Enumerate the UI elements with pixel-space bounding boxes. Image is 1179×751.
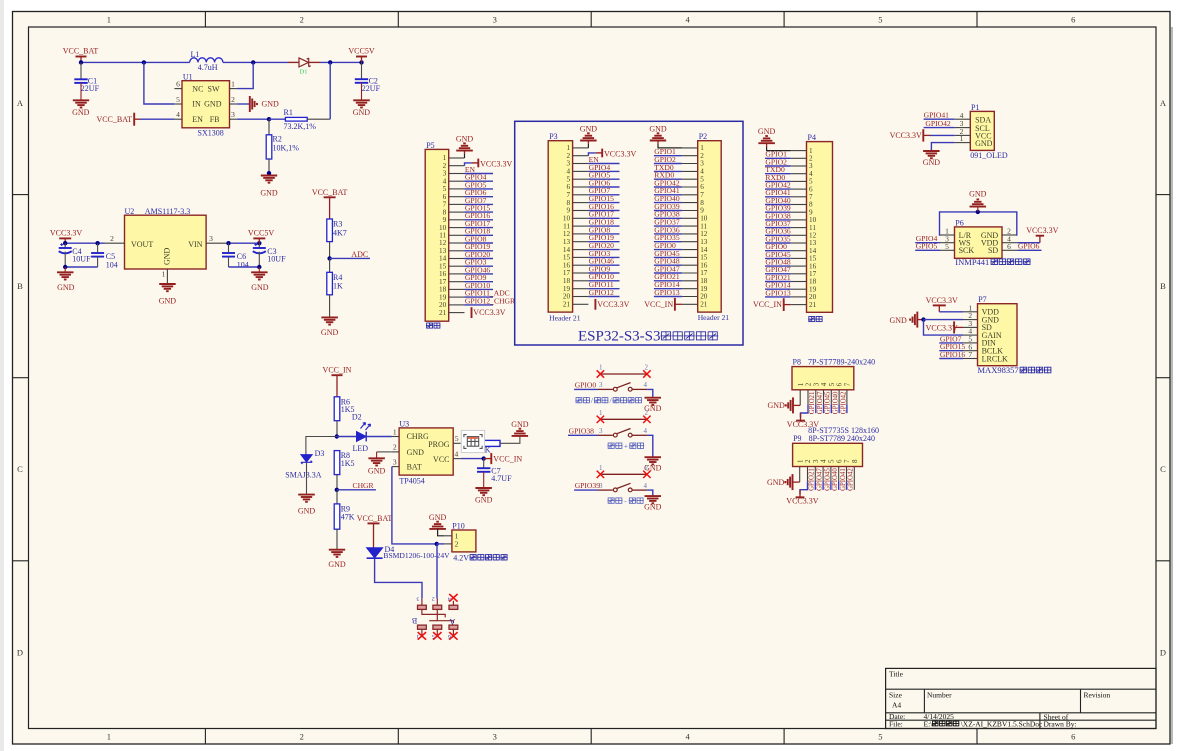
- svg-text:3: 3: [700, 160, 704, 168]
- svg-text:3: 3: [599, 482, 603, 490]
- svg-text:1: 1: [796, 459, 804, 463]
- wire P7 VDD: [939, 311, 963, 313]
- svg-text:BSMD1206-100-24V: BSMD1206-100-24V: [383, 551, 450, 560]
- svg-text:1: 1: [599, 364, 603, 372]
- P10 pin 1: [444, 535, 452, 537]
- ground above P2 pin 1: [658, 144, 682, 148]
- svg-text:GND: GND: [407, 448, 425, 457]
- svg-text:GPIO42: GPIO42: [925, 119, 951, 128]
- net label GPIO11_ADC (P5 pin 19): [465, 296, 494, 298]
- svg-text:1: 1: [393, 427, 397, 436]
- wire IN to node: [144, 62, 175, 104]
- svg-text:21: 21: [563, 301, 571, 309]
- svg-text:K: K: [485, 446, 491, 455]
- P2 pin 4: [682, 170, 698, 172]
- key S2 unused pins 1-2 with no-ERC crosses: [600, 418, 647, 420]
- junction C4 tap: [63, 241, 67, 245]
- P5 pin 21: [449, 312, 465, 314]
- key S1 unused pins 1-2 with no-ERC crosses: [600, 373, 647, 375]
- wire L1 to D5: [223, 61, 288, 63]
- net label GPIO17 (P3 pin 10): [588, 217, 619, 219]
- svg-text:A: A: [17, 98, 24, 108]
- U2 pin 2 VOUT: [105, 242, 125, 244]
- P5 pin 14: [449, 258, 465, 260]
- svg-text:IN: IN: [192, 100, 201, 109]
- wire battery node to switch: [436, 544, 438, 599]
- wire LED to U3: [366, 436, 392, 438]
- ground below P1: [923, 150, 940, 152]
- ic U3 TP4054 body: [399, 428, 453, 475]
- P5 pin 16: [449, 273, 465, 275]
- P3 pin 5: [573, 178, 589, 180]
- svg-text:4: 4: [176, 110, 180, 119]
- P2 pin 18: [682, 280, 698, 282]
- wire prog resistor to ground: [500, 436, 520, 443]
- P4 pin 4: [791, 173, 807, 175]
- net label GPIO0 (P4 pin 14): [765, 250, 791, 252]
- P3 pin 17: [573, 272, 589, 274]
- resistor R2: [268, 119, 270, 135]
- svg-text:1K5: 1K5: [341, 459, 355, 468]
- svg-text:21: 21: [700, 301, 708, 309]
- ground above P6: [977, 207, 979, 212]
- svg-text:VOUT: VOUT: [131, 240, 153, 249]
- svg-text:2: 2: [700, 152, 704, 160]
- svg-text:6: 6: [567, 183, 571, 191]
- svg-text:4: 4: [448, 596, 451, 602]
- U3 pin 2 GND: [392, 451, 399, 453]
- wire battery node to P10: [437, 543, 444, 545]
- svg-text:VCC_BAT: VCC_BAT: [312, 188, 348, 197]
- power port VCC_IN at P4 pin 21: [783, 298, 785, 311]
- svg-text:1: 1: [599, 464, 603, 472]
- svg-text:7: 7: [567, 191, 571, 199]
- svg-text:GND: GND: [204, 100, 222, 109]
- P2 pin 3: [682, 163, 698, 165]
- svg-text:SMAJ3.3A: SMAJ3.3A: [285, 470, 321, 479]
- svg-text:3: 3: [393, 457, 397, 466]
- P5 pin 6: [449, 196, 465, 198]
- net label GPIO42 (P4 pin 6): [765, 188, 791, 190]
- svg-text:3: 3: [812, 459, 820, 463]
- net label GPIO36 (P4 pin 12): [765, 234, 791, 236]
- svg-text:VCC5V: VCC5V: [248, 228, 274, 237]
- P5 pin 1: [449, 157, 465, 159]
- svg-text:3: 3: [567, 160, 571, 168]
- net label GPIO35 (P4 pin 13): [765, 242, 791, 244]
- svg-text:D: D: [1160, 647, 1166, 657]
- power port VCC3.3V at P5 pin 2: [465, 163, 472, 166]
- P7 pin 5 DIN: [963, 342, 978, 344]
- wire P7 GAIN tie to gnd: [924, 320, 964, 336]
- svg-text:VCC3.3V: VCC3.3V: [473, 308, 505, 317]
- svg-text:4: 4: [567, 168, 571, 176]
- net label GPIO1 (P4 pin 2): [765, 157, 791, 159]
- wire BAT net: [392, 467, 437, 544]
- svg-text:9: 9: [700, 207, 704, 215]
- wire D4 to switch: [375, 558, 422, 598]
- svg-text:Title: Title: [889, 670, 904, 679]
- net label GPIO10 (P5 pin 18): [465, 288, 494, 290]
- wire pin2 to ground: [237, 103, 249, 105]
- P1 pin 4 SDA: [955, 118, 971, 120]
- connector P6 INMP441 body: [955, 227, 1003, 258]
- wire key S1 to ground: [647, 389, 653, 397]
- caption volume- key: [608, 498, 615, 504]
- net label EN (P3 pin 3): [588, 163, 619, 165]
- net label ADC wire: [330, 257, 370, 259]
- resistor R3: [327, 219, 333, 242]
- P7 pin 2 GND: [963, 319, 978, 321]
- P4 pin 8: [791, 204, 807, 206]
- key S1 lever: [617, 383, 631, 388]
- net label GPIO1 (P2 pin 2): [654, 155, 682, 157]
- svg-text:VCC_IN: VCC_IN: [644, 300, 673, 309]
- svg-text:19: 19: [700, 285, 708, 293]
- P5 pin 9: [449, 219, 465, 221]
- P1 pin 2 VCC: [955, 134, 971, 136]
- P2 pin 2: [682, 155, 698, 157]
- svg-text:4: 4: [700, 168, 704, 176]
- svg-text:P4: P4: [808, 133, 816, 142]
- U1 pin 4 EN: [174, 118, 182, 120]
- svg-text:GND: GND: [321, 328, 339, 337]
- net label GPIO41 (P2 pin 7): [654, 194, 682, 196]
- net label GPIO35 (P2 pin 13): [654, 241, 682, 243]
- net label GPIO3 (P3 pin 15): [588, 256, 619, 258]
- net label RXD0 (P4 pin 5): [765, 180, 791, 182]
- svg-text:GPIO5: GPIO5: [916, 242, 938, 251]
- svg-text:19: 19: [563, 285, 571, 293]
- wire EN: [140, 118, 174, 120]
- power port VCC_IN at U3 VCC: [484, 458, 492, 460]
- net label GPIO5 (P6 SCK): [915, 249, 940, 251]
- power port VCC3.3V at P5 pin 21: [471, 307, 473, 318]
- svg-text:18: 18: [700, 277, 708, 285]
- wire end dot R2: [267, 171, 271, 175]
- net label GPIO17 (P5 pin 10): [465, 227, 494, 229]
- switch SW1 internal links: [422, 609, 445, 617]
- connector P2 body: [698, 141, 722, 312]
- net label GPIO46 (P3 pin 16): [588, 264, 619, 266]
- P2 pin 14: [682, 249, 698, 251]
- net label GPIO40 (P2 pin 8): [654, 202, 682, 204]
- svg-text:5: 5: [432, 633, 435, 639]
- svg-text:5: 5: [700, 175, 704, 183]
- junction charger node: [335, 434, 339, 438]
- svg-text:16: 16: [563, 261, 571, 269]
- svg-text:P3: P3: [549, 132, 557, 141]
- net label GPIO5 (P3 pin 5): [588, 178, 619, 180]
- svg-text:GPIO40: GPIO40: [832, 468, 839, 491]
- svg-text:4: 4: [685, 732, 690, 742]
- connector P7 MAX98357 body: [978, 304, 1018, 366]
- svg-text:VCC3.3V: VCC3.3V: [926, 296, 958, 305]
- junction at SW tap: [251, 60, 255, 64]
- svg-text:21: 21: [809, 301, 817, 309]
- svg-text:10: 10: [563, 215, 571, 223]
- P5 pin 4: [449, 180, 465, 182]
- svg-text:GPIO40: GPIO40: [833, 391, 840, 414]
- svg-text:8P-ST7789 240x240: 8P-ST7789 240x240: [809, 434, 875, 443]
- P2 pin 10: [682, 217, 698, 219]
- P3 pin 11: [573, 225, 589, 227]
- svg-text:11: 11: [563, 222, 570, 230]
- svg-text:R4: R4: [333, 273, 342, 282]
- svg-text:GND: GND: [767, 401, 785, 410]
- P6 pin 4 VDD: [1002, 242, 1017, 244]
- svg-text:P5: P5: [426, 141, 434, 150]
- svg-text:6: 6: [700, 183, 704, 191]
- svg-text:GND: GND: [57, 283, 75, 292]
- svg-text:1: 1: [162, 270, 166, 279]
- U2 pin 3 VIN: [206, 242, 227, 244]
- P3 pin 1: [573, 147, 589, 149]
- diode D4 protection: [367, 548, 383, 558]
- P7 pin 1 VDD: [963, 311, 978, 313]
- P2 pin 17: [682, 272, 698, 274]
- svg-text:GND: GND: [511, 420, 529, 429]
- key S2 switch pins 3-4: [598, 434, 613, 436]
- svg-text:3: 3: [599, 381, 603, 389]
- net label GPIO6 (P6 SD): [1017, 249, 1041, 251]
- svg-text:11: 11: [700, 222, 707, 230]
- svg-text:8P-ST7735S 128x160: 8P-ST7735S 128x160: [808, 426, 879, 435]
- title block frame: [886, 668, 1156, 728]
- junction at C2 tap: [359, 60, 363, 64]
- ground below C7: [475, 487, 492, 489]
- svg-text:GND: GND: [251, 283, 269, 292]
- svg-text:2: 2: [231, 95, 235, 104]
- P5 pin 19: [449, 296, 465, 298]
- svg-text:17: 17: [563, 269, 571, 277]
- svg-text:1: 1: [599, 409, 603, 417]
- net label GPIO21 (P2 pin 18): [654, 280, 682, 282]
- ground at P9 pin 1: [793, 481, 800, 483]
- net label GPIO6 (P3 pin 6): [588, 186, 619, 188]
- net label GPIO4 (P3 pin 4): [588, 170, 619, 172]
- svg-text:TP4054: TP4054: [399, 476, 424, 485]
- P10 pin 2: [444, 543, 452, 545]
- svg-text:4.2V: 4.2V: [453, 553, 469, 562]
- P4 pin 11: [791, 227, 807, 229]
- svg-text:AMS1117-3.3: AMS1117-3.3: [145, 207, 190, 216]
- svg-text:2: 2: [644, 364, 648, 372]
- power port VCC3.3V at P3 pin 21: [594, 299, 596, 310]
- svg-text:20: 20: [700, 293, 708, 301]
- wire R1 to VCC5V node: [329, 62, 331, 119]
- net label GPIO9 (P3 pin 17): [588, 272, 619, 274]
- P2 pin 21: [682, 303, 698, 305]
- svg-text:GPIO21: GPIO21: [809, 468, 816, 491]
- svg-text:2: 2: [805, 382, 813, 386]
- svg-text:SD: SD: [988, 246, 998, 255]
- svg-text:VIN: VIN: [188, 240, 202, 249]
- svg-text:GND: GND: [429, 513, 447, 522]
- svg-text:22UF: 22UF: [81, 84, 100, 93]
- net label GPIO12 (P3 pin 20): [588, 296, 619, 298]
- svg-text:L1: L1: [191, 50, 200, 59]
- junction P6 gnd: [976, 210, 980, 214]
- connector P8 body: [792, 367, 854, 390]
- svg-text:GPIO45: GPIO45: [824, 468, 831, 491]
- P5 pin 3: [449, 173, 465, 175]
- P4 pin 19: [791, 288, 807, 290]
- P5 pin 8: [449, 211, 465, 213]
- svg-text:9: 9: [567, 207, 571, 215]
- svg-text:8: 8: [567, 199, 571, 207]
- wire D5 to VCC5V: [320, 61, 362, 63]
- svg-text:3: 3: [493, 15, 497, 25]
- connector P4 body: [807, 142, 833, 313]
- net label GPIO19 (P5 pin 13): [465, 250, 494, 252]
- svg-text:14: 14: [563, 246, 571, 254]
- svg-text:Number: Number: [927, 691, 952, 700]
- svg-text:VCC_BAT: VCC_BAT: [96, 115, 132, 124]
- svg-text:5: 5: [945, 242, 949, 251]
- switch SW1 bottom pads: [418, 625, 427, 629]
- svg-text:1: 1: [231, 80, 235, 89]
- svg-text:File:: File:: [889, 720, 903, 729]
- capacitor C3 polarized: [258, 243, 260, 248]
- svg-text:1: 1: [567, 144, 571, 152]
- net label GPIO8 (P3 pin 12): [588, 233, 619, 235]
- net label GPIO5 (P5 pin 5): [465, 188, 494, 190]
- svg-text:GND: GND: [368, 466, 386, 475]
- svg-text:NC: NC: [192, 84, 203, 93]
- wire SW to node: [237, 62, 253, 88]
- P5 pin 20: [449, 304, 465, 306]
- svg-text:1: 1: [107, 732, 111, 742]
- svg-text:LED: LED: [353, 444, 369, 453]
- ground below R2: [261, 175, 277, 177]
- capacitor C6: [228, 243, 230, 253]
- P3 pin 16: [573, 264, 589, 266]
- svg-text:Header 21: Header 21: [549, 314, 581, 323]
- P3 pin 10: [573, 217, 589, 219]
- svg-text:8: 8: [700, 199, 704, 207]
- svg-text:CHGR: CHGR: [353, 481, 375, 490]
- svg-text:4: 4: [820, 382, 828, 386]
- svg-text:3: 3: [493, 732, 497, 742]
- svg-text:Size: Size: [889, 691, 903, 700]
- svg-text:15: 15: [563, 254, 571, 262]
- net label GPIO10 (P3 pin 18): [588, 280, 619, 282]
- net label GPIO19 (P3 pin 13): [588, 241, 619, 243]
- svg-text:GPIO38: GPIO38: [569, 426, 595, 435]
- svg-text:GPIO42: GPIO42: [840, 391, 847, 414]
- net label GPIO48 (P4 pin 16): [765, 265, 791, 267]
- svg-text:4: 4: [820, 459, 828, 463]
- svg-text:3: 3: [599, 427, 603, 435]
- svg-text:GPIO16: GPIO16: [940, 350, 966, 359]
- svg-text:17: 17: [700, 269, 708, 277]
- P4 pin 2: [791, 157, 807, 159]
- net label GPIO41 (P1 SDA): [924, 118, 955, 120]
- svg-text:6: 6: [1007, 242, 1011, 251]
- svg-text:U2: U2: [125, 207, 135, 216]
- P1 pin 3 SCL: [955, 127, 971, 129]
- P6 pin 1 L/R: [940, 234, 955, 236]
- svg-text:16: 16: [700, 261, 708, 269]
- svg-text:4: 4: [643, 427, 647, 435]
- ground below D3: [298, 494, 315, 496]
- svg-text:BAT: BAT: [407, 463, 422, 472]
- svg-text:13: 13: [563, 238, 571, 246]
- svg-text:4: 4: [643, 381, 647, 389]
- svg-text:GND: GND: [475, 496, 493, 505]
- P7 pin 4 GAIN: [963, 334, 978, 336]
- net label GPIO13 (P2 pin 20): [654, 296, 682, 298]
- no-ERC cross on SW1 pin: [449, 594, 457, 602]
- caption wake/interrupt/config key: [575, 397, 582, 403]
- switch SW1 top pads: [418, 605, 427, 609]
- net label GPIO7 (P7 DIN): [939, 342, 963, 344]
- net label GPIO15 (P3 pin 8): [588, 202, 619, 204]
- U3 pin 3 BAT: [392, 466, 399, 468]
- P3 pin 21: [573, 303, 589, 305]
- svg-text:SCK: SCK: [959, 246, 975, 255]
- net label TXD0 (P2 pin 4): [654, 170, 682, 172]
- junction battery node: [435, 542, 439, 546]
- P7 pin 3 SD: [963, 326, 978, 328]
- svg-text:CHRG: CHRG: [407, 432, 429, 441]
- connector P9 body: [793, 443, 863, 466]
- svg-text:2: 2: [644, 409, 648, 417]
- ground below C4: [64, 267, 66, 272]
- svg-text:\XZ-AI_KZBV1.5.SchDoc: \XZ-AI_KZBV1.5.SchDoc: [961, 720, 1043, 729]
- ground below U2: [159, 283, 176, 285]
- connector P10 body: [452, 530, 476, 552]
- svg-text:10UF: 10UF: [267, 255, 286, 264]
- P3 pin 15: [573, 256, 589, 258]
- wire VIN: [227, 242, 259, 244]
- P4 pin 7: [791, 196, 807, 198]
- svg-text:GND: GND: [298, 506, 316, 515]
- net label GPIO7 (P3 pin 7): [588, 194, 619, 196]
- svg-text:P1: P1: [971, 103, 979, 112]
- svg-text:7: 7: [700, 191, 704, 199]
- net label GPIO18 (P3 pin 11): [588, 225, 619, 227]
- svg-text:2: 2: [300, 732, 304, 742]
- left gray strip: [0, 0, 4, 751]
- wire C6-C3 bottoms: [229, 266, 260, 268]
- svg-text:12: 12: [700, 230, 708, 238]
- sheet shadow right: [1171, 27, 1173, 744]
- wire P7 GND pin: [924, 319, 964, 321]
- net label GPIO38 (P4 pin 10): [765, 219, 791, 221]
- svg-text:7P-ST7789-240x240: 7P-ST7789-240x240: [808, 357, 875, 366]
- junction C6 tap: [226, 241, 230, 245]
- junction CHGR: [335, 488, 339, 492]
- power port VCC_IN at P2 pin 21: [674, 298, 676, 311]
- svg-text:22UF: 22UF: [362, 84, 381, 93]
- ground at P8 pin 1: [793, 404, 800, 406]
- key S2 lever: [617, 429, 631, 434]
- wire VCC_BAT to L1: [81, 61, 190, 63]
- net label GPIO42 (P1 SCL): [924, 127, 955, 129]
- power port VCC3.3V at P3 pin 2: [588, 153, 595, 156]
- capacitor C2: [361, 62, 363, 78]
- P3 pin 18: [573, 280, 589, 282]
- P5 pin 12: [449, 242, 465, 244]
- svg-text:INMP441: INMP441: [955, 257, 989, 267]
- key S3 lever: [617, 483, 631, 488]
- net label GPIO47 (P2 pin 17): [654, 272, 682, 274]
- P6 pin 5 SCK: [940, 249, 955, 251]
- wire U3 gnd: [377, 451, 392, 453]
- net label GPIO14 (P2 pin 19): [654, 288, 682, 290]
